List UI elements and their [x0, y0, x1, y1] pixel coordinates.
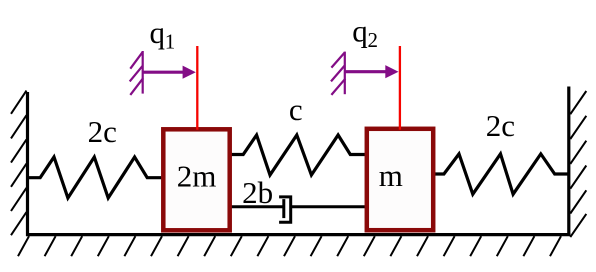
arrow head q1: [183, 66, 196, 79]
svg-text:2: 2: [368, 28, 379, 52]
anchor post q1: [142, 51, 144, 94]
damper rod right: [291, 205, 365, 208]
damper cylinder cup: [279, 197, 291, 222]
svg-text:q: q: [150, 15, 166, 50]
ground hatching: [18, 236, 561, 256]
svg-text:2b: 2b: [242, 175, 273, 210]
svg-text:2c: 2c: [88, 114, 117, 149]
red guide line q1: [196, 46, 198, 130]
right wall: [567, 87, 570, 237]
mass m: [367, 129, 433, 230]
left wall: [26, 92, 29, 236]
svg-text:2m: 2m: [177, 159, 217, 194]
anchor post q2: [344, 52, 346, 95]
anchor hatching q2: [331, 53, 345, 95]
right wall hatching: [570, 91, 586, 237]
ground: [26, 233, 571, 236]
svg-text:1: 1: [165, 29, 176, 53]
damper rod left: [232, 205, 285, 208]
anchor hatching q1: [130, 52, 143, 95]
left wall hatching: [11, 91, 27, 236]
svg-text:m: m: [379, 158, 403, 193]
svg-text:2c: 2c: [486, 108, 515, 143]
mass 2m: [163, 129, 229, 230]
spring 2c right: [435, 154, 569, 194]
svg-text:q: q: [352, 13, 368, 48]
arrow head q2: [385, 65, 398, 78]
damper piston plate: [282, 199, 285, 218]
svg-text:c: c: [289, 92, 303, 127]
spring 2c left: [28, 157, 162, 198]
arrow shaft q1: [143, 71, 184, 74]
spring c middle: [232, 135, 366, 175]
red guide line q2: [399, 46, 401, 130]
arrow shaft q2: [345, 70, 386, 73]
